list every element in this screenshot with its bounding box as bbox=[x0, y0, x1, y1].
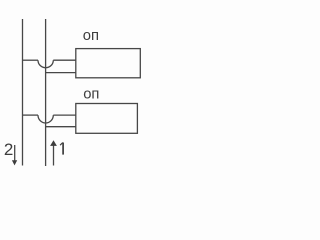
wire: bus R to U1 lower pin bbox=[46, 72, 76, 74]
bus line L (left vertical wire) bbox=[22, 19, 24, 166]
arrow 1 head (up) bbox=[50, 140, 57, 146]
wire: bus L to U1 upper pin bbox=[23, 59, 39, 61]
block U2 (оп) bbox=[76, 104, 138, 134]
label 1 (current direction) bbox=[60, 143, 63, 155]
crossover hop over bus R (wire to U1) bbox=[38, 60, 53, 68]
svg-text:оп: оп bbox=[83, 87, 99, 103]
block U1 (оп) bbox=[76, 49, 141, 78]
svg-text:оп: оп bbox=[83, 28, 99, 44]
wire: bus R to U2 lower pin bbox=[46, 126, 76, 128]
arrow 1 stem (current up, right bus) bbox=[53, 145, 55, 166]
svg-text:2: 2 bbox=[4, 140, 13, 159]
wire: hop to U2 upper pin bbox=[53, 114, 76, 116]
wire: bus L to U2 upper pin bbox=[23, 114, 39, 116]
crossover hop over bus R (wire to U2) bbox=[38, 115, 53, 123]
bus line R (right vertical wire) bbox=[45, 19, 47, 166]
wire: hop to U1 upper pin bbox=[53, 59, 76, 61]
arrow 2 stem (current down, left bus) bbox=[14, 145, 16, 161]
arrow 2 head (down) bbox=[12, 160, 17, 165]
